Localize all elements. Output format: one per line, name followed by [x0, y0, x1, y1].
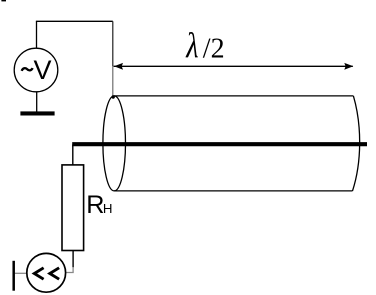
wire: resistor bottom lead	[72, 251, 74, 268]
wire: AC source bottom to ground	[36, 92, 38, 112]
wire: grey link to detector	[67, 267, 74, 273]
wire: right vertical drop (lower, to cylinder feed)	[112, 66, 114, 97]
label ~ (sine mark)	[22, 68, 33, 71]
artifact mark (cropped glyph at top-left corner)	[1, 0, 6, 1]
ground	[20, 111, 54, 115]
wire: right vertical drop (upper)	[112, 21, 114, 66]
wire: thick axial conductor	[72, 142, 367, 146]
AC source V (generator)	[14, 48, 58, 92]
wire: grey stub from earpiece bar to detector	[15, 272, 26, 274]
earpiece bar	[12, 261, 15, 291]
svg-text:V: V	[34, 55, 52, 85]
svg-text:λ: λ	[185, 27, 198, 67]
cylinder: bottom edge	[114, 190, 353, 192]
wire: AC source top to corner	[36, 21, 38, 48]
cylinder: top edge	[114, 95, 354, 97]
label <<	[34, 268, 59, 279]
detector (headphone) circle with <<	[27, 253, 66, 292]
cylinder: left end ellipse	[103, 96, 126, 191]
wire: axial conductor down to resistor	[72, 145, 74, 166]
dimension line lambda/2	[114, 63, 354, 70]
cylinder: right end arc	[353, 96, 360, 191]
node: feed junction dot	[112, 95, 115, 98]
wire: top horizontal run	[36, 20, 113, 22]
svg-text:/2: /2	[203, 34, 225, 65]
resistor RН	[62, 165, 84, 251]
